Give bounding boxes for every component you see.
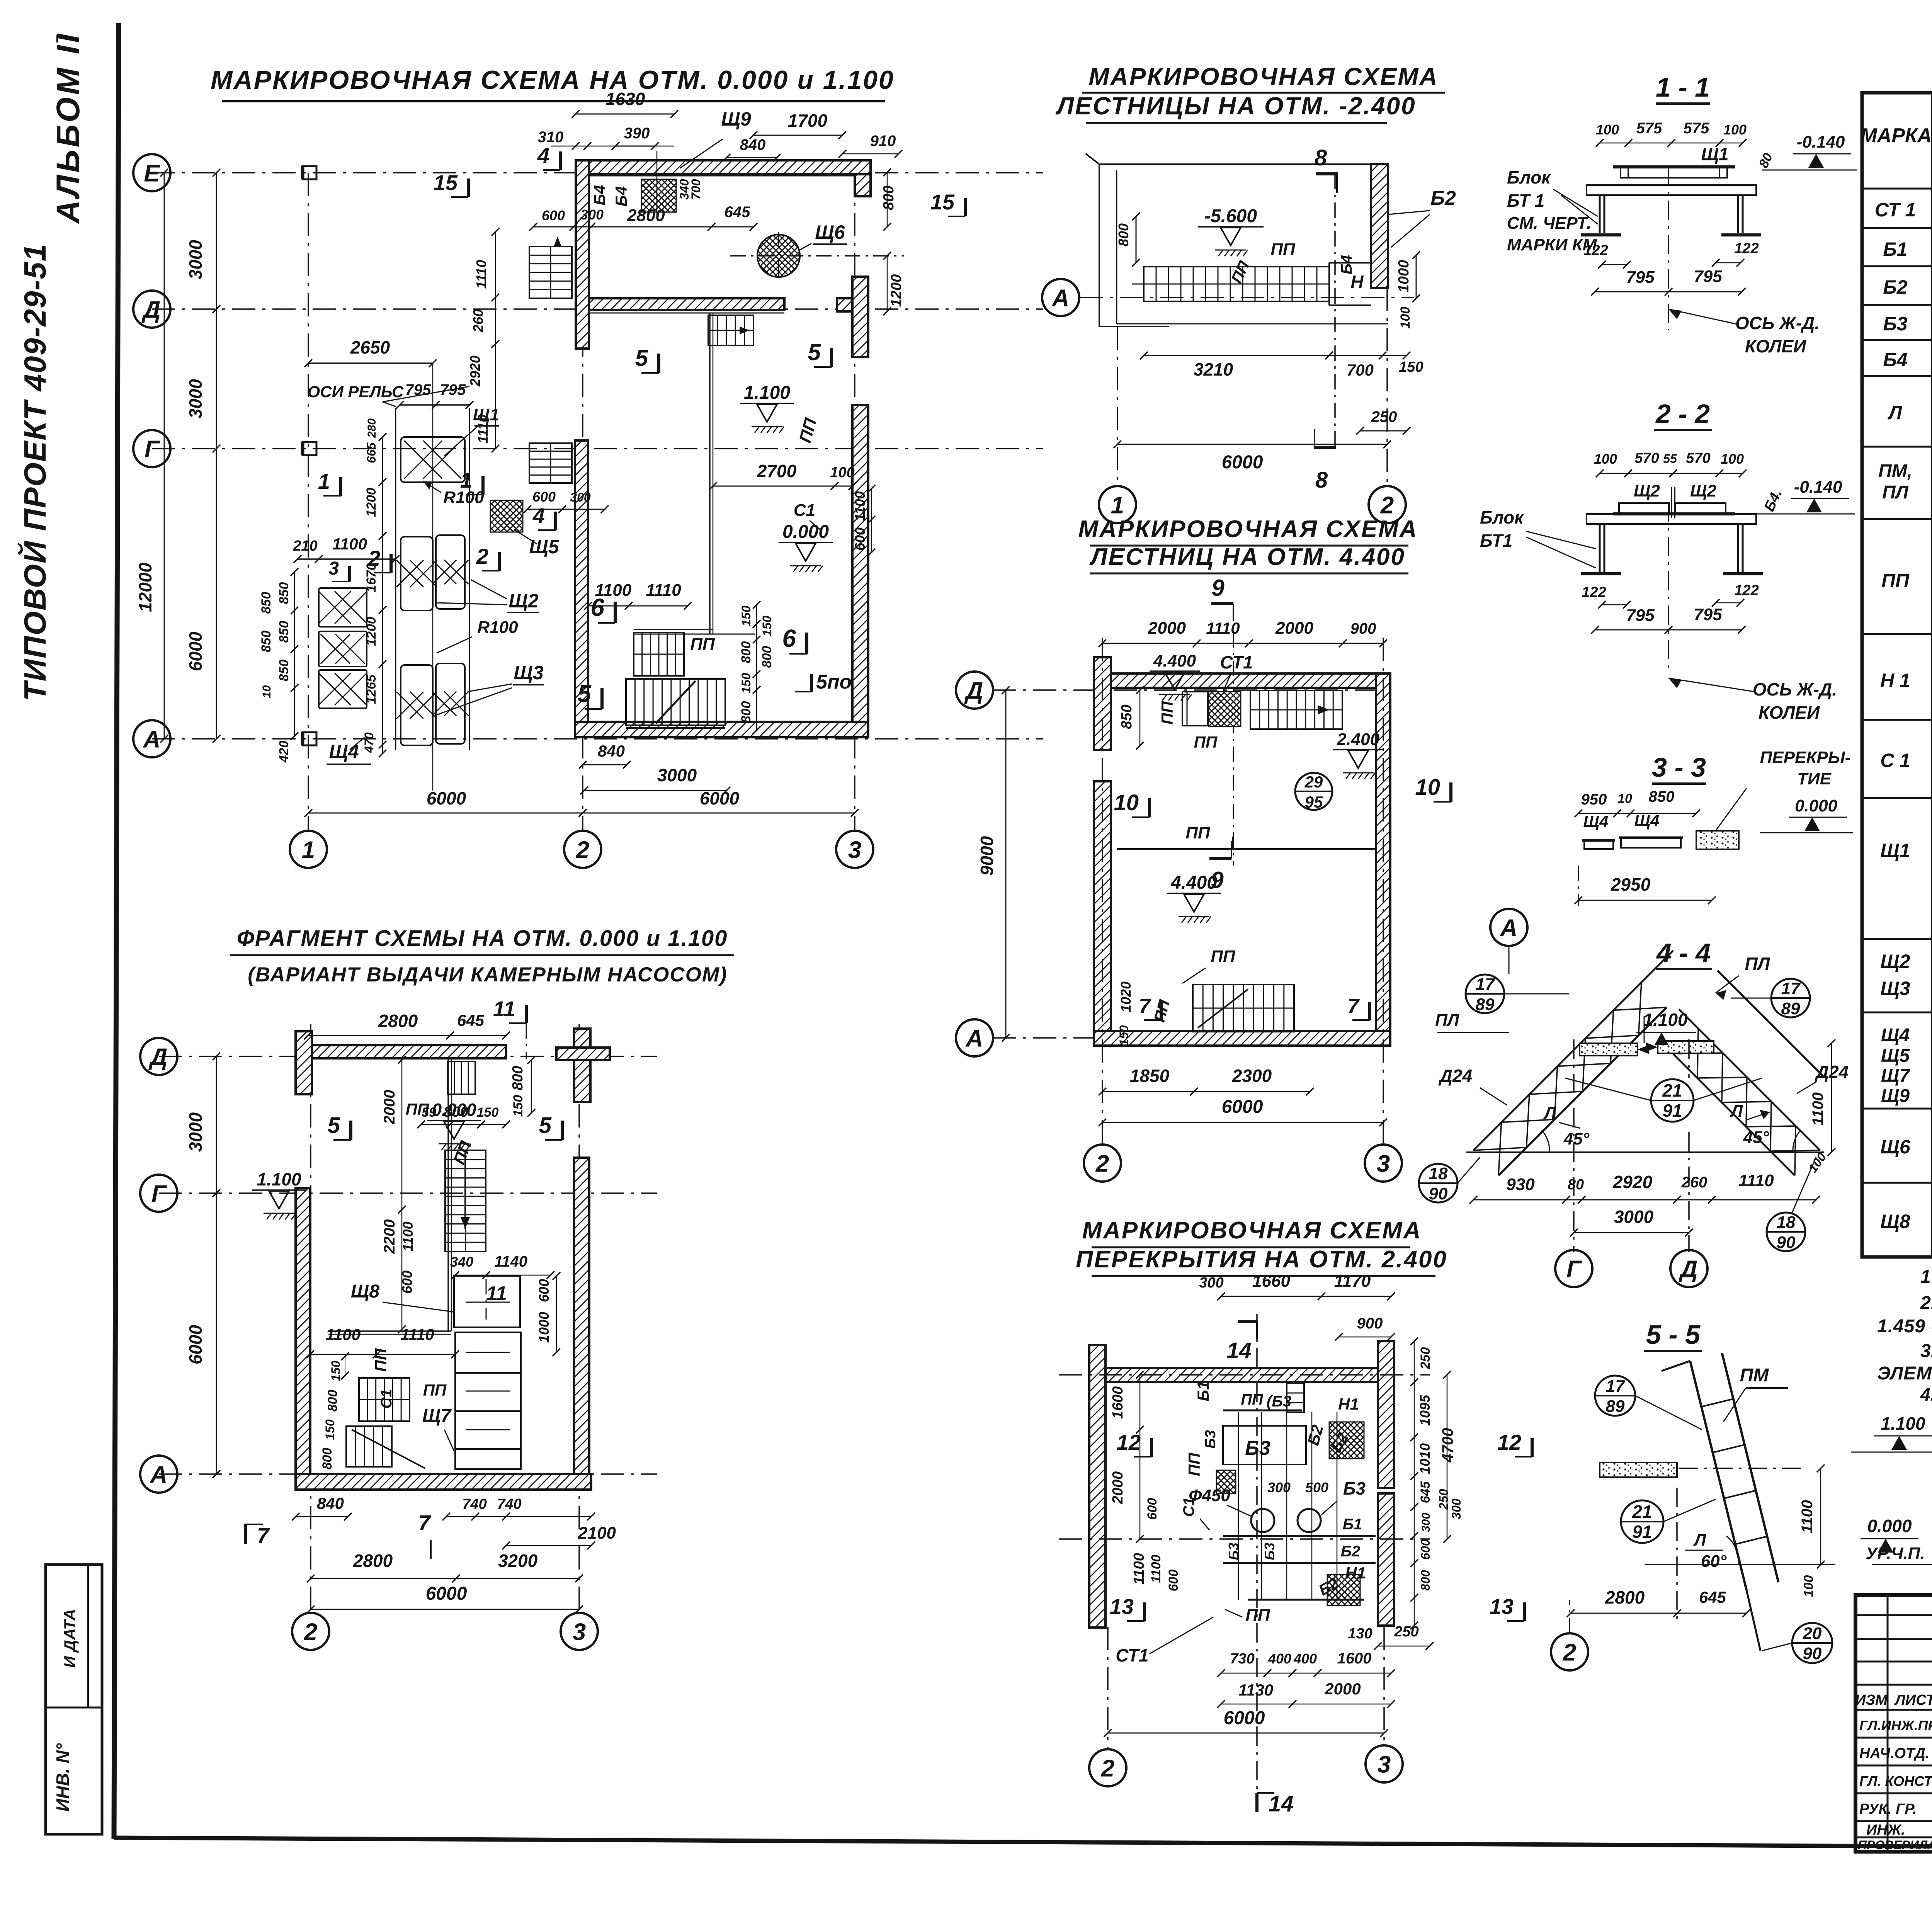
svg-text:Л: Л (1693, 1531, 1706, 1549)
svg-text:420: 420 (277, 741, 291, 763)
svg-text:1100: 1100 (1149, 1554, 1163, 1583)
plan1 section flag 15 right (964, 198, 967, 216)
svg-text:800: 800 (739, 701, 753, 723)
svg-text:-0.140: -0.140 (1794, 478, 1842, 497)
plan3 interior floor line ПП (1117, 848, 1376, 850)
svg-text:400: 400 (1268, 1651, 1291, 1667)
plan1 axis circle Д (133, 291, 170, 328)
svg-text:795: 795 (440, 381, 466, 398)
svg-text:100: 100 (1398, 307, 1413, 329)
svg-text:1.100: 1.100 (1643, 1010, 1688, 1030)
svg-text:100: 100 (1594, 451, 1617, 467)
svg-text:2800: 2800 (353, 1551, 393, 1571)
svg-text:850: 850 (1649, 788, 1675, 805)
plan1 top dims 1700 840 910 (753, 135, 842, 136)
svg-text:СТ 1: СТ 1 (1875, 199, 1916, 221)
svg-text:2800: 2800 (378, 1011, 418, 1031)
plan4 axis circle 2 bottom (1089, 1749, 1126, 1786)
svg-text:ТИЕ: ТИЕ (1797, 769, 1832, 788)
svg-text:300: 300 (580, 207, 604, 223)
svg-text:4700: 4700 (1439, 1428, 1456, 1463)
svg-text:Д24: Д24 (1438, 1066, 1472, 1086)
plan2 dims 740 740 2100 (446, 1516, 591, 1517)
svg-text:5: 5 (808, 339, 821, 365)
svg-text:10: 10 (1114, 790, 1139, 815)
plan1 rotated dims 1100 600 right side (871, 489, 872, 553)
svg-text:С 1: С 1 (1880, 750, 1910, 771)
svg-text:29: 29 (1304, 773, 1323, 791)
svg-text:700: 700 (1347, 361, 1374, 379)
svg-text:Щ6: Щ6 (815, 221, 845, 243)
svg-text:795: 795 (1626, 606, 1655, 625)
svg-text:ПП: ПП (690, 635, 715, 654)
svg-text:РУК. ГР.: РУК. ГР. (1859, 1801, 1917, 1817)
plan2 axis circle Д (140, 1038, 177, 1075)
plan2 main stair flight (445, 1150, 486, 1252)
plan1 column axis 2 (582, 173, 583, 831)
svg-text:60°: 60° (1701, 1552, 1727, 1571)
svg-text:ПП: ПП (1241, 1391, 1264, 1408)
svg-text:80: 80 (1568, 1177, 1584, 1193)
svg-text:3: 3 (573, 1619, 586, 1645)
svg-text:-5.600: -5.600 (1204, 206, 1257, 226)
plan2 right pier at Д (574, 1029, 590, 1102)
svg-text:795: 795 (1626, 268, 1655, 287)
svg-text:2: 2 (304, 1619, 317, 1645)
svg-text:Б3: Б3 (1202, 1430, 1219, 1449)
svg-text:ИНВ. N°: ИНВ. N° (53, 1743, 73, 1811)
svg-text:НАЧ.ОТД.: НАЧ.ОТД. (1859, 1745, 1929, 1762)
plan1 section flag 15 left (467, 179, 470, 197)
svg-text:122: 122 (1583, 242, 1608, 259)
svg-text:ЛЕСТНИЦЫ НА ОТМ. -2.400: ЛЕСТНИЦЫ НА ОТМ. -2.400 (1055, 92, 1416, 120)
svg-text:6000: 6000 (1224, 1708, 1265, 1728)
svg-text:ГЛ. КОНСТР.: ГЛ. КОНСТР. (1859, 1773, 1932, 1789)
svg-text:Б4: Б4 (1338, 255, 1355, 275)
plan1 overall dimension 12000 (164, 173, 165, 739)
svg-text:18: 18 (1429, 1164, 1448, 1183)
svg-text:1.100: 1.100 (257, 1169, 301, 1189)
svg-text:Щ2: Щ2 (1690, 481, 1717, 500)
svg-text:1170: 1170 (1334, 1272, 1371, 1291)
svg-text:(ВАРИАНТ ВЫДАЧИ КАМЕРНЫМ НА: (ВАРИАНТ ВЫДАЧИ КАМЕРНЫМ НАСОСОМ) (248, 963, 727, 986)
svg-text:570: 570 (1686, 450, 1710, 466)
plan1 section flag 2 pair (389, 554, 393, 573)
svg-text:100: 100 (1801, 1575, 1816, 1597)
svg-text:1020: 1020 (1118, 981, 1134, 1012)
svg-text:ПП: ПП (1881, 570, 1910, 592)
plan1 dims 600 300 2800 645 under top wall (533, 226, 753, 228)
svg-text:R100: R100 (477, 618, 518, 637)
plan2 stair at Д wall (447, 1061, 475, 1094)
svg-text:Б2: Б2 (1883, 276, 1907, 298)
svg-text:800: 800 (760, 646, 774, 668)
plan2 bottom stair C (359, 1378, 410, 1421)
svg-text:500: 500 (1305, 1480, 1328, 1495)
svg-text:4.400: 4.400 (1153, 651, 1196, 670)
plan1 top-left corner wall vertical (576, 160, 589, 349)
svg-text:ПМ,: ПМ, (1878, 461, 1912, 481)
svg-text:1110: 1110 (473, 260, 489, 289)
svg-text:1110: 1110 (646, 581, 681, 600)
plan1 axis line Е (152, 172, 1043, 173)
table row lines (1862, 227, 1932, 229)
svg-text:3210: 3210 (1194, 359, 1233, 379)
svg-text:ИЗМ: ИЗМ (1855, 1692, 1888, 1708)
svg-text:11: 11 (486, 1282, 507, 1305)
svg-text:ПП: ПП (1185, 1452, 1203, 1476)
svg-text:Б2: Б2 (1430, 187, 1456, 209)
svg-text:600: 600 (536, 1279, 552, 1302)
plan2 axis circle Г (140, 1175, 177, 1212)
svg-text:150: 150 (1399, 359, 1423, 375)
svg-text:ПРОВЕРИЛА: ПРОВЕРИЛА (1858, 1838, 1932, 1852)
svg-text:795: 795 (1694, 605, 1722, 624)
svg-text:2650: 2650 (350, 337, 390, 357)
plan3 section flag 9 top (1211, 602, 1233, 605)
section1-1 right leg (1737, 195, 1739, 233)
svg-text:800: 800 (1116, 223, 1131, 247)
svg-text:850: 850 (277, 582, 291, 604)
svg-text:Щ4: Щ4 (1881, 1025, 1910, 1046)
svg-text:Л: Л (1543, 1104, 1556, 1122)
svg-text:4. СВАРКУ ПРОИЗВОДИТЬ ЭЛЕКТР: 4. СВАРКУ ПРОИЗВОДИТЬ ЭЛЕКТРОДАМИ Э42 ПО… (1920, 1384, 1932, 1405)
svg-text:1.459 - 2 , ВЫПУСК 1.: 1.459 - 2 , ВЫПУСК 1. (1877, 1316, 1932, 1337)
svg-text:5: 5 (539, 1113, 552, 1138)
plan3 bottom dims 1850 2300 (1102, 1091, 1310, 1092)
plan-2.400 outline left (1099, 164, 1100, 327)
svg-text:Щ7: Щ7 (422, 1406, 452, 1426)
plan1 cross pier right of plan (852, 277, 868, 357)
plan2 left dim chain 3000 6000 (216, 1056, 217, 1474)
svg-text:15: 15 (930, 190, 955, 214)
svg-text:3000: 3000 (657, 765, 697, 785)
plan4 beam line Б1 (1223, 1535, 1376, 1537)
svg-text:Г: Г (1566, 1256, 1582, 1282)
svg-text:1110: 1110 (1206, 619, 1240, 637)
title block outer border (1855, 1595, 1932, 1852)
title block left columns (1887, 1595, 1889, 1852)
svg-text:150: 150 (739, 605, 753, 626)
plan4 axis circle 3 bottom (1366, 1745, 1403, 1782)
svg-text:ПП: ПП (1185, 823, 1211, 842)
svg-text:ЛИСТ: ЛИСТ (1894, 1692, 1932, 1708)
section5-5 vertical ref line (1676, 1488, 1678, 1619)
svg-text:1110: 1110 (400, 1325, 434, 1344)
svg-text:21: 21 (1662, 1080, 1682, 1100)
plan1 dimension 2700 100 (713, 486, 852, 487)
svg-text:1700: 1700 (788, 111, 828, 131)
svg-text:6000: 6000 (1222, 1097, 1263, 1117)
section4-4 axis circle Д (1670, 1250, 1708, 1287)
section4-4 ground line (1466, 1151, 1824, 1153)
svg-text:ПП: ПП (1245, 1606, 1270, 1625)
svg-text:2000: 2000 (1148, 619, 1186, 638)
table header bottom line (1862, 188, 1932, 190)
svg-text:БТ 1: БТ 1 (1507, 190, 1544, 211)
svg-text:2100: 2100 (578, 1524, 616, 1543)
svg-text:100: 100 (830, 464, 854, 481)
svg-text:ПЛ: ПЛ (1745, 954, 1770, 974)
svg-text:45°: 45° (1563, 1129, 1590, 1148)
svg-text:3: 3 (1377, 1150, 1390, 1177)
svg-text:1.100: 1.100 (744, 383, 790, 403)
plan3 right wall (1376, 673, 1390, 1039)
plan1 left dimension chain 3000 3000 6000 (216, 173, 217, 739)
plan3 circled fraction 29/95 (1295, 773, 1332, 810)
section4-4 circled 18/90 left (1419, 1164, 1458, 1202)
section4-4 circled 17/89 left (1466, 975, 1504, 1013)
plan1 left small panels with X (319, 588, 367, 627)
section2-2 dim 795 795 (1595, 629, 1742, 631)
svg-text:14: 14 (1226, 1338, 1252, 1363)
svg-text:2.400: 2.400 (1337, 730, 1380, 749)
plan1 Б4 hatched square (641, 179, 676, 212)
svg-text:Щ3: Щ3 (514, 662, 543, 684)
plan4 beam line lower (1248, 1599, 1364, 1601)
svg-text:3: 3 (848, 837, 861, 863)
svg-text:И ДАТА: И ДАТА (61, 1609, 79, 1668)
section2-2 left leg (1599, 524, 1601, 572)
plan1 section flag 6 right (805, 633, 808, 654)
plan1 top dims 1630 390 310 (576, 114, 674, 115)
plan-2.400 axis circle 1 (1117, 327, 1118, 486)
plan2 bottom wall on А (296, 1474, 591, 1490)
svg-text:Щ4: Щ4 (329, 741, 359, 762)
plan3 axis circle 3 bottom (1365, 1145, 1402, 1182)
plan4 label Н1 lower (1327, 1575, 1360, 1605)
svg-text:1: 1 (460, 468, 472, 492)
plan3 section flag 9 bottom (1209, 857, 1231, 860)
plan3 section flag 7 right (1368, 1002, 1371, 1020)
svg-text:Б3: Б3 (1883, 313, 1907, 335)
svg-text:850: 850 (259, 592, 274, 614)
plan2 axis line Г (159, 1192, 657, 1194)
plan4 top dims 300 1660 1170 (1221, 1296, 1391, 1297)
svg-text:1630: 1630 (605, 89, 645, 109)
svg-text:СТ1: СТ1 (1220, 652, 1253, 672)
plan-2.400 bottom dim 6000 (1117, 444, 1387, 445)
plan1 axis circle А (133, 720, 170, 757)
plan2 axis line Д (159, 1056, 657, 1057)
plan1 label Щ5 and hatch square (490, 500, 523, 532)
svg-text:1110: 1110 (1738, 1171, 1774, 1190)
svg-text:900: 900 (1357, 1315, 1383, 1332)
section2-2 right leg (1737, 524, 1739, 572)
plan4 right wall lower (1378, 1493, 1394, 1626)
svg-text:2920: 2920 (467, 355, 483, 387)
svg-text:С1: С1 (794, 501, 815, 520)
plan2 left pier at Д (296, 1031, 312, 1094)
svg-text:21: 21 (1632, 1502, 1652, 1522)
svg-text:300: 300 (1449, 1498, 1463, 1519)
svg-text:2: 2 (576, 837, 589, 863)
svg-text:3000: 3000 (185, 1112, 206, 1152)
plan3 section flag 7 left (1160, 1002, 1163, 1020)
svg-text:850: 850 (277, 660, 291, 682)
svg-text:ГЛ.ИНЖ.ПР.: ГЛ.ИНЖ.ПР. (1859, 1718, 1932, 1733)
svg-text:10: 10 (260, 685, 273, 698)
plan2 bottom stair D (346, 1426, 392, 1467)
plan3 stair side panels (1182, 692, 1207, 726)
svg-text:1110: 1110 (475, 415, 491, 444)
svg-text:А: А (965, 1025, 983, 1052)
svg-text:Блок: Блок (1480, 507, 1524, 527)
svg-text:Е: Е (144, 160, 160, 187)
svg-text:1: 1 (1111, 492, 1124, 519)
svg-text:400: 400 (1293, 1651, 1317, 1667)
plan1 rotated dim chain 280 665 1200 1670 1200 1265 (382, 437, 383, 753)
svg-text:250: 250 (1371, 408, 1397, 425)
plan4 right wall upper (1378, 1341, 1394, 1488)
svg-text:Д: Д (1679, 1256, 1698, 1282)
svg-text:800: 800 (881, 185, 897, 210)
plan4 section flag 12 right (1531, 1438, 1534, 1457)
svg-text:ПЛ: ПЛ (1882, 482, 1909, 503)
svg-text:840: 840 (598, 742, 625, 760)
plan1 section flag 5 lower-left (600, 688, 604, 709)
section5-5 ladder ПМ (1690, 1361, 1747, 1590)
svg-text:1 - 1: 1 - 1 (1656, 72, 1710, 102)
plan2 section flag 7 bottom-left (244, 1524, 247, 1544)
svg-text:Г: Г (151, 1180, 167, 1207)
plan4 section flag 14 top (1238, 1320, 1257, 1323)
plan1 axis line А (152, 738, 1043, 740)
section2-2 right foot (1723, 572, 1763, 575)
svg-text:Щ3: Щ3 (1880, 978, 1910, 999)
plan3 upper stair (1250, 690, 1342, 729)
svg-text:3000: 3000 (185, 240, 206, 279)
plan2 section flag 11 top (525, 1005, 528, 1023)
svg-text:9000: 9000 (977, 836, 997, 876)
svg-text:1000: 1000 (536, 1312, 552, 1343)
section4-4 dims 930 80 2920 260 1110 (1473, 1199, 1816, 1201)
svg-text:1100: 1100 (332, 535, 367, 553)
plan1 lower left wall (575, 440, 588, 723)
svg-text:2000: 2000 (1275, 619, 1313, 638)
svg-text:1100: 1100 (326, 1325, 361, 1344)
plan1 panels Щ2 pair (401, 537, 433, 611)
svg-text:ФРАГМЕНТ СХЕМЫ НА ОТМ. 0.00: ФРАГМЕНТ СХЕМЫ НА ОТМ. 0.000 и 1.100 (237, 926, 728, 951)
svg-text:600: 600 (1166, 1570, 1181, 1592)
svg-text:665: 665 (364, 442, 378, 463)
svg-text:ПП: ПП (423, 1381, 447, 1399)
plan-2.400 axis А circle (1042, 279, 1079, 316)
plan3 bottom wall (1094, 1031, 1390, 1046)
plan-2.400 section flag 8 bottom (1314, 446, 1336, 449)
svg-text:300: 300 (1199, 1275, 1223, 1291)
svg-text:740: 740 (462, 1496, 486, 1512)
svg-text:800: 800 (739, 641, 753, 663)
plan2 axis circle 3 (561, 1613, 598, 1650)
svg-text:795: 795 (1694, 267, 1722, 286)
plan2 column axis 3 (578, 1024, 580, 1613)
section4-4 circled 17/89 right (1771, 979, 1810, 1017)
svg-text:7: 7 (257, 1523, 270, 1548)
plan-2.400 stair flight (1144, 267, 1329, 301)
section4-4 left ladder (1473, 982, 1641, 1150)
svg-text:1100: 1100 (1131, 1553, 1147, 1585)
svg-text:1200: 1200 (364, 488, 379, 517)
plan1 dims 795 795 (400, 404, 469, 406)
svg-text:900: 900 (1350, 620, 1376, 637)
svg-text:260: 260 (470, 309, 486, 333)
plan3 lower stair (1193, 985, 1294, 1032)
svg-text:5: 5 (635, 345, 649, 371)
svg-text:Щ6: Щ6 (1880, 1136, 1910, 1158)
svg-text:150: 150 (739, 673, 753, 694)
svg-text:7: 7 (1347, 995, 1360, 1018)
svg-text:А: А (1500, 915, 1518, 941)
section5-5 circled 17/89 (1595, 1376, 1635, 1416)
svg-text:Н1: Н1 (1345, 1564, 1366, 1582)
plan1 dimension 840 3000 (583, 764, 627, 765)
svg-text:850: 850 (1119, 704, 1135, 729)
svg-text:1265: 1265 (364, 674, 379, 704)
svg-text:3200: 3200 (498, 1551, 538, 1571)
svg-text:210: 210 (293, 538, 317, 554)
svg-text:Н 1: Н 1 (1880, 670, 1910, 691)
svg-text:45°: 45° (1743, 1128, 1769, 1147)
plan1 stair block B with treads (626, 679, 725, 725)
plan1 rail axis lines (395, 408, 396, 750)
svg-text:5по: 5по (816, 671, 852, 693)
plan-2.400 right wall hatched (1371, 164, 1388, 288)
svg-text:20: 20 (1803, 1624, 1822, 1643)
plan2 dims 1100 1110 (310, 1354, 455, 1355)
plan3 top dims 2000 1110 2000 900 (1102, 643, 1383, 644)
plan1 axis line Д (152, 308, 1043, 310)
plan1 dim 600 300 at Г stair (527, 509, 605, 510)
svg-text:БТ1: БТ1 (1480, 531, 1513, 551)
plan4 left rotated dims 1600 2000 1100 1100 600 600 (1139, 1375, 1141, 1539)
svg-text:3000: 3000 (185, 379, 206, 418)
section1-1 dim 795 795 (1595, 291, 1742, 293)
svg-text:1660: 1660 (1252, 1272, 1290, 1291)
svg-text:ОСИ РЕЛЬС: ОСИ РЕЛЬС (308, 383, 404, 401)
svg-text:100: 100 (1721, 451, 1744, 467)
svg-text:Г: Г (145, 436, 160, 463)
plan4 circles ф450 (1251, 1509, 1274, 1532)
svg-text:95: 95 (1305, 793, 1323, 811)
svg-text:КОЛЕИ: КОЛЕИ (1745, 336, 1806, 356)
plan3 dim 9000 (1005, 690, 1007, 1038)
plan-2.400 bottom dims 3210 700 150 (1144, 355, 1329, 356)
svg-text:91: 91 (1662, 1100, 1682, 1121)
svg-text:250: 250 (1437, 1489, 1451, 1510)
svg-text:ПП: ПП (1194, 733, 1218, 751)
svg-text:850: 850 (277, 621, 291, 643)
svg-text:Л: Л (1888, 402, 1903, 423)
plan1 axis circle 3 (836, 831, 873, 868)
section3-3 concrete block (1696, 831, 1739, 849)
svg-text:12: 12 (1117, 1430, 1141, 1454)
svg-text:645: 645 (457, 1011, 485, 1029)
section2-2 dims 100 570 55 570 100 (1600, 473, 1743, 474)
svg-text:310: 310 (538, 129, 564, 146)
plan2 dim 6000 (311, 1609, 579, 1610)
svg-text:150: 150 (323, 1419, 337, 1440)
plan4 interior beams (1223, 1410, 1302, 1412)
section4-4 right ladder (1698, 1029, 1820, 1150)
left bottom stamp box Инв № (46, 1565, 102, 1834)
plan-2.400 room Н walls (1329, 262, 1371, 264)
plan2 dim 840 (296, 1516, 348, 1517)
table ведомость элементов outer border (1862, 93, 1932, 1257)
svg-text:АЛЬБОМ II: АЛЬБОМ II (50, 32, 86, 224)
plan3 left wall lower (1094, 781, 1111, 1040)
section5-5 ground line (1645, 1564, 1835, 1565)
